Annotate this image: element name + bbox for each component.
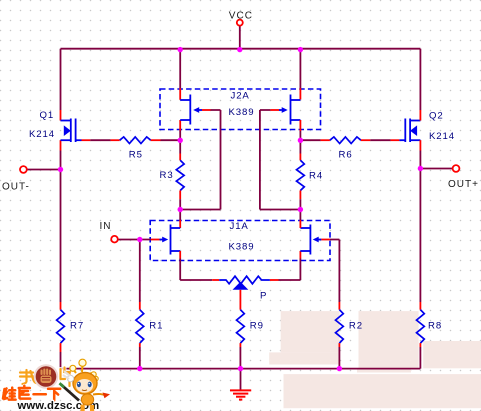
port VCC	[229, 11, 253, 26]
wire J2A-right source	[299, 120, 301, 131]
svg-text:IN: IN	[100, 221, 112, 232]
svg-text:R5: R5	[129, 150, 143, 161]
wire node to R6 run	[300, 139, 320, 141]
transistor Q2	[399, 119, 420, 143]
wire rail to J2A-left drain	[179, 50, 181, 88]
resistor R3	[179, 140, 181, 153]
wire Q1 to R5 run	[82, 139, 91, 141]
svg-text:K214: K214	[29, 129, 55, 140]
pink overlay block A	[269, 311, 339, 364]
svg-text:K389: K389	[229, 107, 255, 118]
dual JFET box J1A	[150, 221, 330, 261]
port IN	[100, 221, 118, 242]
resistor R8	[417, 310, 425, 343]
ground	[230, 369, 251, 400]
wire J1A-right gate to R2	[321, 239, 330, 241]
svg-text:K214: K214	[429, 131, 455, 142]
resistor R5	[120, 137, 151, 144]
pink overlay block C	[423, 341, 481, 368]
svg-text:J2A: J2A	[231, 91, 250, 102]
wire J1A-left source to pot	[179, 251, 181, 259]
dual JFET box J2A	[160, 89, 321, 130]
wire J2A-left gate to lower node	[202, 109, 211, 111]
JFET J1A-left	[160, 225, 181, 255]
JFET J1A-right	[300, 225, 321, 255]
svg-text:R1: R1	[149, 321, 163, 332]
svg-text:R2: R2	[349, 321, 363, 332]
wire OUT- stub	[27, 169, 61, 171]
wire top rail	[61, 48, 421, 50]
transistor Q1	[61, 119, 82, 143]
svg-text:Q1: Q1	[40, 110, 55, 121]
resistor R7	[57, 310, 65, 343]
wire pot right to J1A-right source	[270, 279, 279, 281]
port OUT+	[448, 165, 479, 190]
wire Q1 drain from rail	[60, 49, 62, 110]
watermark logo dzsc	[3, 359, 110, 411]
wire VCC drop	[239, 26, 241, 50]
svg-text:J1A: J1A	[230, 221, 249, 232]
svg-text:OUT-: OUT-	[2, 182, 30, 193]
svg-text:K389: K389	[229, 242, 255, 253]
resistor R9	[236, 310, 244, 343]
resistor R2	[336, 310, 344, 343]
svg-text:R3: R3	[160, 170, 174, 181]
svg-text:Q2: Q2	[429, 110, 444, 121]
svg-text:R9: R9	[250, 321, 264, 332]
wire IN node down to R1	[139, 240, 141, 303]
svg-text:R6: R6	[339, 150, 353, 161]
wire Q2 source down to R8	[419, 140, 421, 150]
resistor R4	[299, 140, 301, 153]
wire J1A-left drain	[179, 210, 181, 221]
potentiometer P wiper arrow	[233, 282, 249, 290]
svg-text:R8: R8	[428, 321, 442, 332]
wire R5 to node	[151, 139, 161, 141]
wire J1A-right drain	[299, 210, 301, 221]
pink overlay block B	[359, 311, 419, 369]
svg-text:VCC: VCC	[229, 11, 253, 22]
pink overlay block D	[284, 374, 481, 408]
resistor R6	[330, 137, 361, 144]
port OUT-	[2, 166, 30, 193]
wire J2A-left source to node	[179, 120, 181, 131]
JFET J2A-left	[180, 95, 202, 125]
wire Q1 source down to R7	[60, 140, 62, 150]
wire bottom rail	[61, 368, 421, 370]
JFET J2A-right	[279, 95, 301, 125]
svg-text:R4: R4	[309, 171, 323, 182]
wire IN to gate	[118, 239, 151, 241]
wire Q2 drain from rail	[419, 49, 421, 110]
svg-text:R7: R7	[70, 321, 84, 332]
wire J2A-right gate to lower node	[270, 109, 279, 111]
svg-text:P: P	[260, 291, 267, 302]
wire rail to J2A-right drain	[299, 50, 301, 88]
wire R6 to Q2	[361, 139, 370, 141]
potentiometer P	[219, 276, 270, 284]
resistor R1	[136, 310, 144, 343]
wire OUT+ stub	[420, 168, 452, 170]
svg-text:OUT+: OUT+	[448, 179, 479, 190]
wire wiper down to R9	[239, 290, 241, 310]
